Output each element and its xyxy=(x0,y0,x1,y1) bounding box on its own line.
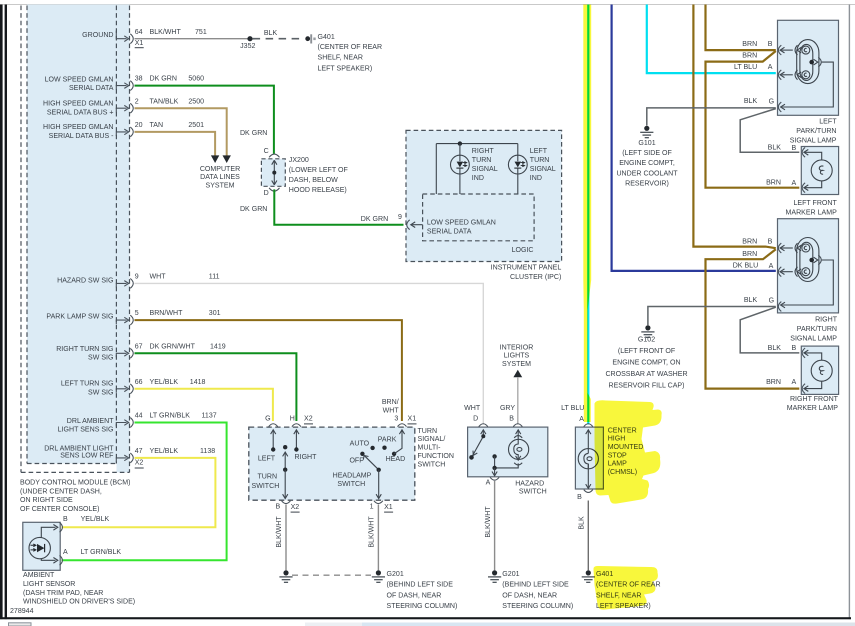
right page border xyxy=(849,5,850,620)
svg-text:SYSTEM: SYSTEM xyxy=(206,182,235,189)
svg-text:PARK/TURN: PARK/TURN xyxy=(797,326,837,333)
label RIGHT TURN SIGNAL IND xyxy=(472,148,498,182)
svg-text:A: A xyxy=(792,379,797,386)
headlamp switch HEAD contact xyxy=(386,452,406,464)
svg-text:TURN: TURN xyxy=(258,474,278,481)
sensor internal wire to pin A xyxy=(41,558,58,564)
turn switch right contact wire from pin H xyxy=(294,430,299,450)
svg-text:B: B xyxy=(792,345,797,352)
svg-text:(DASH TRIM PAD, NEAR: (DASH TRIM PAD, NEAR xyxy=(23,590,103,597)
wire common to pin A xyxy=(492,468,497,476)
svg-text:YEL/BLK: YEL/BLK xyxy=(150,448,179,455)
MIDWIRES xyxy=(62,283,484,560)
ambient light sensor box xyxy=(23,522,60,570)
wire BLK/WHT (turn switch pin B to ground) xyxy=(276,505,286,571)
label LOW SPEED GMLAN SERIAL DATA xyxy=(427,220,496,236)
wire bus left drop to logic xyxy=(435,144,437,194)
logic box xyxy=(423,194,534,241)
svg-text:INSTRUMENT PANEL: INSTRUMENT PANEL xyxy=(491,264,562,271)
svg-text:DK GRN/WHT: DK GRN/WHT xyxy=(150,343,196,350)
BCM pin 38 LOW SPEED GMLAN SERIAL DATA xyxy=(116,81,133,91)
label RIGHT PARK/TURN SIGNAL LAMP xyxy=(790,316,837,342)
svg-text:BLK: BLK xyxy=(744,98,758,105)
svg-text:PARK LAMP SW SIG: PARK LAMP SW SIG xyxy=(46,314,113,321)
HAZARD xyxy=(464,344,573,610)
svg-text:OF DASH, NEAR: OF DASH, NEAR xyxy=(387,592,442,599)
svg-text:DK GRN: DK GRN xyxy=(150,76,177,83)
left lamp dual filament bulb xyxy=(781,40,834,110)
svg-text:67: 67 xyxy=(135,343,143,350)
ground G201 label (headlamp switch) xyxy=(387,571,458,610)
svg-text:SERIAL DATA BUS -: SERIAL DATA BUS - xyxy=(49,133,115,140)
svg-text:FUNCTION: FUNCTION xyxy=(418,453,454,460)
svg-text:ON RIGHT SIDE: ON RIGHT SIDE xyxy=(20,497,73,504)
svg-text:B: B xyxy=(768,41,773,48)
BCM xyxy=(20,5,226,513)
svg-text:BRN/WHT: BRN/WHT xyxy=(150,310,184,317)
svg-text:SENS LOW REF: SENS LOW REF xyxy=(60,452,114,459)
BCM inner dashed border bottom xyxy=(27,463,116,465)
wire LT GRN/BLK 1137 (BCM to ambient light sensor A) xyxy=(62,423,227,561)
svg-text:SIGNAL LAMP: SIGNAL LAMP xyxy=(790,137,837,144)
wire BRN feed 1 (to left park/turn lamp pin B) xyxy=(706,5,776,51)
ground G201 (hazard) xyxy=(488,570,501,582)
BCM pin 9 HAZARD SW SIG xyxy=(116,279,133,289)
svg-text:OFF: OFF xyxy=(349,457,364,464)
svg-text:SIGNAL: SIGNAL xyxy=(472,166,498,173)
svg-text:LEFT: LEFT xyxy=(258,455,276,462)
svg-text:LIGHT SENSOR: LIGHT SENSOR xyxy=(23,581,75,588)
svg-text:751: 751 xyxy=(195,29,207,36)
right lamp pin G connector xyxy=(778,302,781,312)
svg-text:RIGHT TURN SIG: RIGHT TURN SIG xyxy=(56,346,113,353)
svg-text:D: D xyxy=(264,190,269,197)
svg-text:CROSSBAR AT WASHER: CROSSBAR AT WASHER xyxy=(605,371,687,378)
SENSOR xyxy=(23,516,135,606)
pin B label and YEL/BLK xyxy=(63,516,109,523)
svg-text:RIGHT: RIGHT xyxy=(295,454,318,461)
ambient light sensor label xyxy=(23,572,135,605)
pin H connector arc xyxy=(292,424,301,427)
wire WHT 111 (BCM to hazard switch) xyxy=(135,283,484,424)
svg-text:SIGNAL: SIGNAL xyxy=(530,166,556,173)
left park/turn signal lamp box xyxy=(778,20,839,115)
label LT BLU xyxy=(734,64,773,71)
label RIGHT FRONT MARKER LAMP xyxy=(787,396,839,412)
dashed ground link wire xyxy=(292,574,371,576)
svg-text:B: B xyxy=(63,516,68,523)
svg-text:BLK/WHT: BLK/WHT xyxy=(276,516,283,548)
connector X1 label bottom xyxy=(384,504,393,512)
label BRN B xyxy=(742,41,772,48)
BCM pin 47 DRL AMBIENT LIGHT SENS LOW REF xyxy=(116,453,133,463)
ground symbol at turn switch xyxy=(279,570,292,582)
label BRN A (right marker) xyxy=(766,379,796,386)
left marker pin B connector xyxy=(802,147,808,157)
svg-text:5060: 5060 xyxy=(188,76,204,83)
label BLK G (left lamp) xyxy=(744,98,774,105)
top page boundary line xyxy=(0,4,855,6)
svg-text:66: 66 xyxy=(135,379,143,386)
LAMPS xyxy=(778,20,839,412)
ground G401 label (bottom) xyxy=(596,571,661,610)
svg-text:C: C xyxy=(264,148,269,155)
svg-text:RESERVOIR): RESERVOIR) xyxy=(625,181,669,188)
wire HEAD contact to pin 3 xyxy=(394,430,405,454)
label BRN A (left marker) xyxy=(766,180,796,187)
svg-text:LEFT FRONT: LEFT FRONT xyxy=(793,200,837,207)
label LEFT FRONT MARKER LAMP xyxy=(786,200,838,217)
label LEFT TURN SIGNAL IND xyxy=(530,148,556,182)
ground G201 (headlamp switch) xyxy=(372,570,385,582)
left lamp pin G connector xyxy=(778,102,781,112)
BCM pin 5 PARK LAMP SW SIG xyxy=(116,315,133,325)
svg-text:SHELF, NEAR: SHELF, NEAR xyxy=(318,55,363,62)
svg-text:1419: 1419 xyxy=(210,343,226,350)
svg-text:RIGHT FRONT: RIGHT FRONT xyxy=(790,396,839,403)
svg-text:2: 2 xyxy=(135,98,139,105)
svg-text:AUTO: AUTO xyxy=(350,441,370,448)
svg-text:DATA LINES: DATA LINES xyxy=(200,174,240,181)
ambient light sensor photodiode xyxy=(29,537,50,558)
svg-text:HIGH SPEED GMLAN: HIGH SPEED GMLAN xyxy=(43,101,113,108)
pin A connector arc (bottom) xyxy=(490,477,499,480)
left lamp pin A connector xyxy=(778,70,792,80)
svg-text:SW SIG: SW SIG xyxy=(88,355,113,362)
ground G101 label xyxy=(616,140,678,188)
label LEFT PARK/TURN SIGNAL LAMP xyxy=(790,119,837,145)
GROUNDS-BOTTOM xyxy=(10,505,457,616)
svg-text:301: 301 xyxy=(209,310,221,317)
splice J352 xyxy=(240,36,255,50)
svg-text:(BEHIND LEFT SIDE: (BEHIND LEFT SIDE xyxy=(387,582,454,589)
svg-text:DK BLU: DK BLU xyxy=(733,263,758,270)
wire BLK/WHT 751 xyxy=(135,38,251,40)
headlamp switch PARK contact xyxy=(378,437,397,450)
pin 3 connector arc xyxy=(398,424,407,427)
svg-text:BRN: BRN xyxy=(766,180,781,187)
wire DK GRN (JX200 to IPC) xyxy=(274,189,403,224)
label BLK B (right marker) xyxy=(768,345,797,352)
svg-text:A: A xyxy=(792,180,797,187)
svg-text:HAZARD SW SIG: HAZARD SW SIG xyxy=(57,278,113,285)
svg-text:COMPUTER: COMPUTER xyxy=(200,166,240,173)
center high mounted stop lamp box xyxy=(575,427,603,489)
right lamp pin B connector xyxy=(778,243,792,253)
svg-text:IND: IND xyxy=(530,175,542,182)
svg-text:RIGHT: RIGHT xyxy=(815,316,838,323)
svg-text:MULTI-: MULTI- xyxy=(418,445,442,452)
junction node on bus xyxy=(458,141,462,145)
BCM outer dashed border right xyxy=(129,6,131,473)
label TURN SWITCH xyxy=(252,474,280,490)
svg-text:(CENTER OF REAR: (CENTER OF REAR xyxy=(318,44,383,51)
svg-text:X1: X1 xyxy=(384,504,393,511)
GROUND-ROW xyxy=(135,30,383,72)
svg-text:STEERING COLUMN): STEERING COLUMN) xyxy=(502,603,573,610)
CHMSL xyxy=(561,5,660,610)
label HAZARD SWITCH xyxy=(515,480,546,495)
svg-text:3: 3 xyxy=(394,415,398,422)
svg-text:TURN: TURN xyxy=(530,157,550,164)
right lamp junction node xyxy=(809,258,814,263)
connector X1 label xyxy=(408,416,417,424)
wire TAN 2501 xyxy=(135,132,216,156)
CHMSL bulb xyxy=(578,430,598,489)
svg-text:SWITCH: SWITCH xyxy=(519,489,547,496)
svg-text:ENGINE COMPT, ON: ENGINE COMPT, ON xyxy=(612,360,680,367)
highlighter mark around G401 label xyxy=(593,566,657,610)
svg-text:DK GRN: DK GRN xyxy=(361,216,388,223)
svg-text:HEADLAMP: HEADLAMP xyxy=(333,473,372,480)
svg-text:A: A xyxy=(769,263,774,270)
svg-text:G: G xyxy=(769,297,774,304)
headlamp switch AUTO contact xyxy=(350,441,375,450)
turn switch lever xyxy=(283,445,288,472)
svg-text:B: B xyxy=(509,415,514,422)
svg-text:BRN: BRN xyxy=(742,52,757,59)
left front marker lamp box xyxy=(801,147,838,195)
BCM pin 67 RIGHT TURN SIG SW SIG xyxy=(116,348,133,358)
svg-text:SIGNAL/: SIGNAL/ xyxy=(418,436,446,443)
BCM pin 64 GROUND xyxy=(116,31,133,44)
pin B connector arc (bottom) xyxy=(584,490,593,493)
svg-text:1137: 1137 xyxy=(202,413,217,420)
svg-text:G: G xyxy=(265,415,270,422)
turn signal / multi-function switch box xyxy=(249,427,415,500)
BCM pin 44 DRL AMBIENT LIGHT SENS SIG xyxy=(116,418,133,428)
wire GRY (interior lights to hazard pin B) xyxy=(517,377,519,424)
svg-text:AMBIENT: AMBIENT xyxy=(23,572,55,579)
wire YEL/BLK 1418 (BCM to turn switch pin G) xyxy=(135,389,273,421)
label BRN/WHT at headlamp switch xyxy=(382,399,400,415)
svg-text:(UNDER CENTER DASH,: (UNDER CENTER DASH, xyxy=(20,488,102,495)
svg-text:B: B xyxy=(577,494,582,501)
BCM pin 20 HIGH SPEED GMLAN SERIAL DATA BUS - xyxy=(116,127,133,137)
svg-text:B: B xyxy=(768,239,773,246)
svg-text:LT GRN/BLK: LT GRN/BLK xyxy=(81,549,122,556)
right park/turn signal lamp box xyxy=(778,219,839,313)
left marker pin A connector xyxy=(802,183,808,193)
svg-text:TAN: TAN xyxy=(150,122,164,129)
svg-text:BLK/WHT: BLK/WHT xyxy=(150,29,182,36)
ground G102 xyxy=(641,325,654,337)
svg-text:B: B xyxy=(792,145,797,152)
svg-text:BLK: BLK xyxy=(579,516,586,530)
svg-text:38: 38 xyxy=(135,76,143,83)
ground G401 label (top) xyxy=(318,34,383,72)
svg-text:(LOWER LEFT OF: (LOWER LEFT OF xyxy=(289,167,349,174)
svg-text:DK GRN: DK GRN xyxy=(240,130,267,137)
svg-text:(BEHIND LEFT SIDE: (BEHIND LEFT SIDE xyxy=(502,582,569,589)
pin A connector arc xyxy=(584,424,593,427)
svg-text:A: A xyxy=(63,549,68,556)
svg-text:DRL AMBIENT LIGHT: DRL AMBIENT LIGHT xyxy=(44,445,114,452)
svg-text:SW SIG: SW SIG xyxy=(88,389,113,396)
hazard switch lever from pin D xyxy=(469,430,486,460)
svg-text:1138: 1138 xyxy=(200,448,215,455)
svg-text:A: A xyxy=(579,416,584,423)
svg-text:G101: G101 xyxy=(638,140,655,147)
right lamp pin A connector xyxy=(778,267,792,277)
svg-text:IND: IND xyxy=(472,175,484,182)
svg-text:9: 9 xyxy=(135,274,139,281)
IPC pin 9 xyxy=(398,214,423,230)
left border double black bar xyxy=(0,5,3,620)
svg-text:WHT: WHT xyxy=(464,405,481,412)
label BLK G (right lamp) xyxy=(744,297,774,304)
svg-text:BLK: BLK xyxy=(768,345,782,352)
svg-text:20: 20 xyxy=(135,122,143,129)
ground G102 label xyxy=(605,337,687,390)
svg-text:1: 1 xyxy=(370,504,374,511)
wire BRN branch (right lamp second feed and right marker lamp) xyxy=(706,249,800,388)
svg-text:G: G xyxy=(769,98,774,105)
svg-text:WINDSHIELD ON DRIVER'S SIDE): WINDSHIELD ON DRIVER'S SIDE) xyxy=(23,599,135,606)
pin B connector arc xyxy=(60,522,63,532)
svg-text:LT BLU: LT BLU xyxy=(734,64,757,71)
wire BLK (CHMSL pin B to G401) xyxy=(579,501,589,571)
svg-text:WHT: WHT xyxy=(150,274,167,281)
svg-text:YEL/BLK: YEL/BLK xyxy=(150,379,179,386)
svg-text:LOW SPEED GMLAN: LOW SPEED GMLAN xyxy=(45,77,114,84)
svg-text:BODY CONTROL MODULE (BCM): BODY CONTROL MODULE (BCM) xyxy=(20,480,130,487)
RIGHTCOL xyxy=(605,5,799,390)
connector X2 label bottom xyxy=(291,504,300,512)
wire BLK/WHT (headlamp switch pin 1 to G201) xyxy=(369,505,379,571)
right marker pin B connector xyxy=(802,348,808,358)
pin A label and LT GRN/BLK xyxy=(63,549,121,556)
pin B connector arc xyxy=(513,424,522,427)
svg-text:TURN: TURN xyxy=(472,157,492,164)
wire BLK (right lamp G to right marker lamp B) xyxy=(740,307,799,353)
svg-text:X2: X2 xyxy=(135,460,144,467)
svg-text:RESERVOIR FILL CAP): RESERVOIR FILL CAP) xyxy=(609,383,685,390)
svg-text:JX200: JX200 xyxy=(289,157,309,164)
wire BLK (G102 to right park/turn lamp pin G) xyxy=(648,307,776,326)
svg-text:MARKER LAMP: MARKER LAMP xyxy=(786,209,838,216)
svg-text:TAN/BLK: TAN/BLK xyxy=(150,98,179,105)
svg-text:64: 64 xyxy=(135,29,143,36)
svg-text:DK GRN: DK GRN xyxy=(240,206,267,213)
svg-text:J352: J352 xyxy=(240,43,255,50)
svg-text:WHT: WHT xyxy=(383,407,400,414)
MFSWITCH xyxy=(249,415,454,512)
svg-text:X1: X1 xyxy=(135,40,144,47)
svg-text:BRN: BRN xyxy=(742,41,757,48)
svg-text:RIGHT: RIGHT xyxy=(472,148,495,155)
svg-text:HEAD: HEAD xyxy=(386,456,406,463)
label HEADLAMP SWITCH xyxy=(333,473,372,489)
label BRN B (right lamp) xyxy=(742,238,772,245)
wire DK GRN/WHT 1419 (BCM to turn switch pin H) xyxy=(135,353,297,421)
svg-text:GRY: GRY xyxy=(500,405,515,412)
svg-text:SERIAL DATA BUS +: SERIAL DATA BUS + xyxy=(47,109,114,116)
svg-text:HOOD RELEASE): HOOD RELEASE) xyxy=(289,187,347,194)
svg-text:LOGIC: LOGIC xyxy=(512,247,534,254)
left lamp junction node xyxy=(809,60,814,65)
svg-text:UNDER COOLANT: UNDER COOLANT xyxy=(616,170,678,177)
svg-text:LT GRN/BLK: LT GRN/BLK xyxy=(150,413,191,420)
svg-text:OF DASH, NEAR: OF DASH, NEAR xyxy=(502,592,557,599)
svg-text:D: D xyxy=(473,415,478,422)
svg-text:SERIAL DATA: SERIAL DATA xyxy=(69,85,114,92)
svg-text:G201: G201 xyxy=(387,571,404,578)
arrow to computer data lines system (left) xyxy=(211,155,219,163)
svg-text:44: 44 xyxy=(135,413,143,420)
svg-text:BLK: BLK xyxy=(744,297,758,304)
svg-text:BLK: BLK xyxy=(768,145,782,152)
svg-text:BLK/WHT: BLK/WHT xyxy=(369,516,376,548)
wire DK BLU (to right park/turn lamp pin A) xyxy=(612,5,776,271)
highlighter mark vertical over LT BLU wire xyxy=(583,5,591,423)
label BLK B (left marker) xyxy=(768,145,797,152)
wire DK GRN 5060 (BCM to JX200) xyxy=(135,86,274,154)
svg-text:G401: G401 xyxy=(318,34,335,41)
svg-text:ENGINE COMPT,: ENGINE COMPT, xyxy=(619,160,675,167)
LED left turn signal ind xyxy=(508,144,527,194)
svg-text:OF CENTER CONSOLE): OF CENTER CONSOLE) xyxy=(20,506,99,513)
svg-text:SWITCH: SWITCH xyxy=(252,483,280,490)
svg-text:G102: G102 xyxy=(638,337,655,344)
right marker bulb xyxy=(805,353,833,389)
svg-text:TURN: TURN xyxy=(418,428,438,435)
svg-text:X2: X2 xyxy=(304,416,313,423)
svg-text:BLK: BLK xyxy=(264,30,278,37)
left marker bulb xyxy=(805,152,833,187)
ground G201 label (hazard) xyxy=(502,571,573,610)
BCM outer dashed border left xyxy=(20,6,22,473)
svg-text:G201: G201 xyxy=(502,571,519,578)
LED right turn signal ind xyxy=(451,144,470,194)
svg-text:2500: 2500 xyxy=(188,98,204,105)
arrow from interior lights system xyxy=(513,370,522,377)
svg-text:BRN: BRN xyxy=(742,251,757,258)
label COMPUTER DATA LINES SYSTEM xyxy=(200,166,240,190)
svg-text:47: 47 xyxy=(135,448,143,455)
turn switch common wire to pin B xyxy=(283,470,288,499)
ground G401 xyxy=(582,570,595,582)
headlamp switch OFF contact xyxy=(349,452,364,465)
wire LT BLU (to CHMSL pin A) xyxy=(587,5,589,425)
svg-text:LOW SPEED GMLAN: LOW SPEED GMLAN xyxy=(427,220,496,227)
pin D connector arc xyxy=(479,424,488,427)
connector X2 label xyxy=(304,416,313,424)
svg-text:1418: 1418 xyxy=(190,379,206,386)
sensor internal wire to pin B xyxy=(41,525,58,538)
headlamp switch common wire to pin 1 xyxy=(376,470,381,499)
connector JX200 xyxy=(261,148,285,197)
svg-text:2501: 2501 xyxy=(188,122,204,129)
HIGHLIGHTS xyxy=(583,5,661,610)
svg-text:5: 5 xyxy=(135,310,139,317)
BCM inner dashed border left xyxy=(26,6,28,464)
svg-text:BLK/WHT: BLK/WHT xyxy=(485,506,492,538)
IPC xyxy=(398,130,562,281)
wire BRN/WHT 301 (BCM to headlamp switch pin 3) xyxy=(135,320,402,421)
svg-text:HAZARD: HAZARD xyxy=(515,480,544,487)
label TURN SIGNAL/ MULTI-FUNCTION SWITCH xyxy=(418,428,454,469)
wire YEL/BLK 1138 (BCM to ambient light sensor B) xyxy=(62,458,216,527)
svg-text:(LEFT FRONT OF: (LEFT FRONT OF xyxy=(618,348,676,355)
svg-text:INTERIOR: INTERIOR xyxy=(500,344,534,351)
svg-text:DASH, BELOW: DASH, BELOW xyxy=(289,177,338,184)
svg-text:DRL AMBIENT: DRL AMBIENT xyxy=(67,418,114,425)
svg-text:LEFT: LEFT xyxy=(530,148,548,155)
svg-text:SWITCH: SWITCH xyxy=(418,461,446,468)
ground G401 connector symbol xyxy=(305,34,315,43)
DATA-LINES xyxy=(135,86,404,225)
